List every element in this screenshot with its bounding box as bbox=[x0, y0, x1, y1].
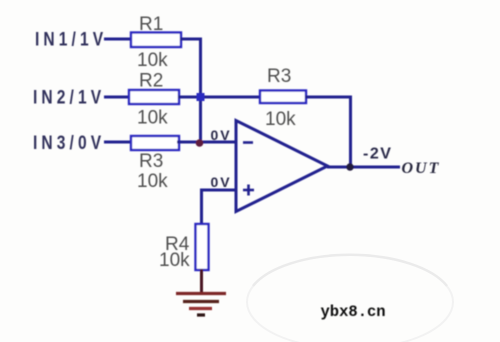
node IN2/1V label bbox=[33, 86, 105, 108]
resistor R4 bbox=[196, 224, 209, 270]
svg-text:OUT: OUT bbox=[402, 160, 441, 177]
op-amp minus pin mark bbox=[243, 141, 253, 144]
svg-text:10k: 10k bbox=[265, 109, 296, 130]
wire R3 to op-amp inverting input bbox=[177, 141, 237, 144]
wire op-amp output bbox=[327, 166, 400, 169]
svg-text:R3: R3 bbox=[267, 66, 291, 87]
svg-text:10k: 10k bbox=[159, 250, 190, 271]
svg-text:R3: R3 bbox=[139, 151, 163, 172]
wire IN1 to R1 bbox=[104, 38, 132, 41]
junction inverting node bbox=[196, 139, 204, 147]
wire IN3 to R3 bbox=[104, 141, 132, 144]
resistor R2 bbox=[129, 90, 179, 104]
junction bus/feedback bbox=[197, 93, 205, 101]
resistor R3 (input) bbox=[131, 136, 179, 150]
svg-text:IN3/0V: IN3/0V bbox=[33, 132, 105, 154]
wire op-amp plus input bbox=[200, 189, 236, 192]
svg-text:0V: 0V bbox=[211, 127, 232, 143]
junction output node bbox=[346, 163, 353, 170]
node IN1/1V label bbox=[35, 28, 107, 50]
ground bbox=[176, 294, 226, 316]
svg-text:10k: 10k bbox=[137, 171, 168, 192]
wire R4 to ground bbox=[200, 269, 203, 294]
wire feedback vertical bbox=[349, 96, 352, 168]
svg-text:10k: 10k bbox=[137, 50, 168, 71]
resistor R3 (feedback) bbox=[260, 91, 306, 104]
node OUT label bbox=[402, 160, 441, 177]
wire plus input down to R4 bbox=[200, 189, 203, 226]
svg-text:R2: R2 bbox=[139, 71, 163, 92]
svg-text:ybx8.cn: ybx8.cn bbox=[321, 303, 386, 321]
op-amp U1 bbox=[236, 121, 328, 212]
resistor R1 bbox=[131, 33, 181, 48]
wire R2 to feedback resistor R3 bbox=[178, 96, 261, 99]
faint watermark arc top bbox=[253, 255, 447, 286]
svg-text:R1: R1 bbox=[139, 14, 163, 35]
svg-text:IN1/1V: IN1/1V bbox=[35, 28, 107, 50]
svg-text:0V: 0V bbox=[211, 174, 232, 190]
watermark ybx8.cn bbox=[321, 303, 386, 321]
wire IN2 to R2 bbox=[104, 96, 130, 99]
wire feedback R3 to output node bbox=[305, 96, 352, 99]
op-amp plus pin mark bbox=[243, 185, 254, 196]
svg-text:-2V: -2V bbox=[363, 146, 392, 163]
svg-text:10k: 10k bbox=[137, 108, 168, 129]
wire R1 to bus bbox=[180, 38, 202, 41]
faint watermark circle bbox=[247, 255, 453, 342]
node IN3/0V label bbox=[33, 132, 105, 154]
svg-text:IN2/1V: IN2/1V bbox=[33, 86, 105, 108]
wire inverting bus vertical bbox=[199, 38, 202, 144]
